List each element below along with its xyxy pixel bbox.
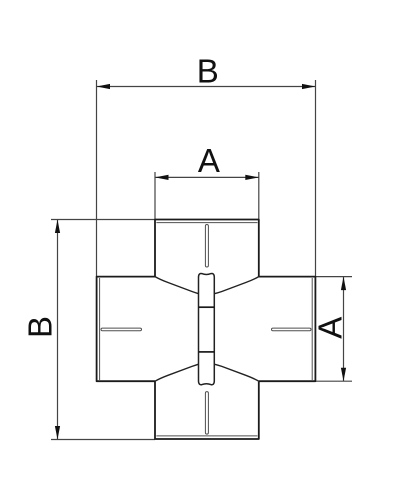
- transition curve top-right (right port to nut): [214, 277, 258, 294]
- extension line right of dimension A top: [258, 172, 260, 220]
- bottom port body outline: [155, 381, 259, 439]
- transition curve top-left (left port to nut): [155, 277, 199, 294]
- arrowhead bottom of dimension B left: [55, 426, 60, 440]
- union nut divider line lower: [199, 351, 215, 353]
- transition curve bottom-right (right port to nut): [214, 364, 258, 381]
- thread tick slot top port: [205, 225, 208, 268]
- union nut divider line upper: [199, 306, 215, 308]
- dimension line B top: [97, 86, 316, 88]
- chamfer line left port face: [99, 278, 101, 380]
- extension line top of dimension A right: [315, 276, 352, 278]
- union nut body: [199, 274, 215, 385]
- extension line bottom of dimension A right: [315, 380, 352, 382]
- arrowhead right of dimension B top: [302, 84, 316, 89]
- svg-text:B: B: [197, 53, 219, 90]
- chamfer line bottom port face: [156, 435, 257, 437]
- arrowhead bottom of dimension A right: [341, 368, 346, 382]
- right port body outline: [259, 277, 316, 382]
- svg-text:A: A: [312, 317, 349, 339]
- chamfer line top port face: [156, 222, 257, 224]
- left port body outline: [97, 277, 155, 382]
- arrowhead left of dimension B top: [97, 84, 111, 89]
- dimension line A top: [155, 176, 259, 178]
- arrowhead top of dimension A right: [341, 277, 346, 291]
- thread tick slot left port: [101, 328, 142, 331]
- extension line right of dimension B top: [315, 80, 317, 277]
- arrowhead left of dimension A top: [155, 175, 169, 180]
- transition curve bottom-left (left port to nut): [155, 364, 199, 381]
- svg-text:B: B: [21, 316, 58, 338]
- thread tick slot right port: [272, 328, 312, 331]
- arrowhead top of dimension B left: [55, 220, 60, 234]
- dimension line A right: [343, 277, 345, 382]
- extension line left of dimension A top: [154, 172, 156, 220]
- extension line top of dimension B left: [51, 219, 155, 221]
- chamfer line right port face: [311, 278, 313, 380]
- extension line left of dimension B top: [96, 80, 98, 277]
- arrowhead right of dimension A top: [245, 175, 258, 180]
- extension line bottom of dimension B left: [51, 439, 155, 441]
- thread tick slot bottom port: [205, 392, 208, 435]
- svg-text:A: A: [198, 142, 220, 179]
- dimension line B left: [57, 220, 59, 440]
- top port body outline: [155, 220, 259, 277]
